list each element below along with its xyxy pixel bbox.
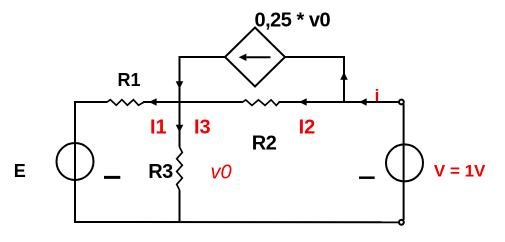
svg-text:R3: R3 — [148, 161, 173, 183]
svg-text:i: i — [375, 86, 380, 105]
svg-text:V = 1V: V = 1V — [434, 161, 486, 180]
svg-text:E: E — [14, 161, 26, 181]
svg-text:R1: R1 — [118, 70, 141, 90]
svg-text:I2: I2 — [299, 117, 316, 139]
svg-text:v0: v0 — [211, 161, 232, 183]
svg-text:R2: R2 — [252, 133, 277, 155]
svg-text:I3: I3 — [194, 117, 211, 139]
svg-text:0,25 * v0: 0,25 * v0 — [255, 10, 331, 32]
svg-text:I1: I1 — [150, 117, 167, 139]
